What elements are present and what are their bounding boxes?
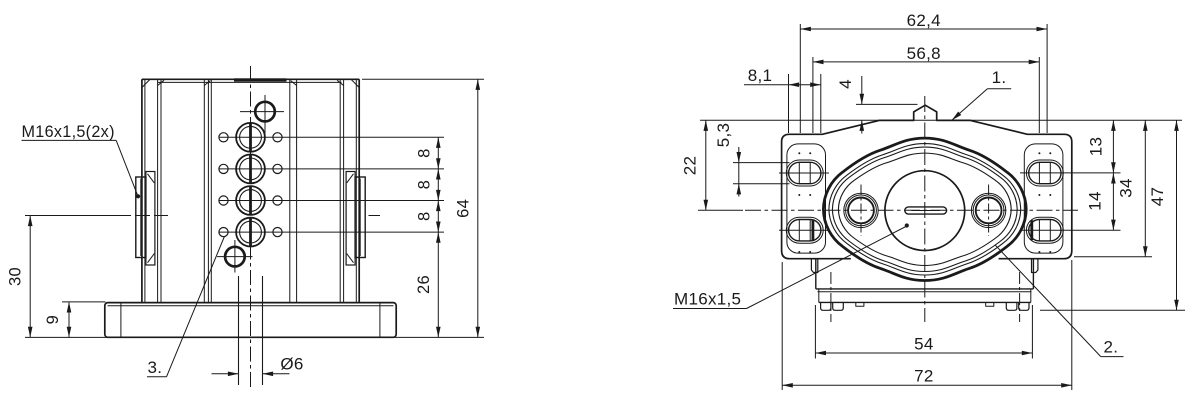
right view: right ear inner contour: [1024, 144, 1063, 253]
left view: base corner edges: [120, 303, 122, 338]
left view: dimension 9: [44, 302, 106, 338]
right view: left ear holes centerline upper: [779, 172, 829, 174]
left view: right boss centerline tick: [369, 215, 381, 217]
left view: body vertical edges: [142, 79, 359, 302]
right view: left ear holes centerline lower: [779, 229, 829, 231]
svg-text:64: 64: [454, 199, 472, 218]
left view: bottom offset hole with centerlines: [217, 240, 253, 273]
left view: chain dimension 8/8/8/26: [415, 137, 441, 337]
left view: horizontal centerline (boss axis): [25, 215, 168, 217]
svg-text:5,3: 5,3: [714, 123, 733, 148]
svg-text:26: 26: [415, 275, 433, 294]
svg-text:13: 13: [1087, 137, 1106, 157]
svg-text:47: 47: [1148, 187, 1167, 207]
right view: dimension 8,1: [744, 66, 821, 133]
left view: top corner chamfer edges: [142, 79, 359, 87]
svg-text:72: 72: [914, 367, 934, 386]
left view: body top face thick edge: [234, 78, 287, 81]
right view: base block edges: [816, 259, 1034, 303]
right view: dimension 22: [680, 120, 743, 210]
right view: dimension 62,4: [800, 11, 1047, 133]
right view: left ear inner contour: [787, 144, 826, 253]
right view: top plane extension line: [700, 119, 1182, 121]
left view: dimension 64: [454, 79, 480, 337]
right view: right ear upper slot hole 8,1x5,3: [1026, 160, 1063, 186]
left view: right side boss (M16 port): [346, 172, 365, 266]
svg-text:M16x1,5(2x): M16x1,5(2x): [22, 123, 115, 141]
left view: vertical centerline: [250, 66, 252, 388]
right view: dimension 72: [782, 260, 1072, 390]
right view: vertical centerline: [924, 96, 926, 322]
right view: horizontal centerline: [745, 209, 1078, 211]
left view: dimension 30: [7, 216, 33, 338]
left view: ground/baseline extension line: [25, 336, 484, 338]
svg-text:8: 8: [416, 148, 434, 157]
right view: label 1. with leader arrow: [950, 68, 1011, 122]
left view: base top face edge: [108, 305, 394, 307]
right view: dimension 4 (tab height): [836, 76, 918, 134]
right view: base feet left: [821, 302, 864, 310]
right view: dimensions 13 and 14: [1020, 120, 1121, 230]
right view: left ear lower slot hole with thread mark: [786, 217, 823, 243]
svg-text:1.: 1.: [992, 68, 1007, 87]
svg-text:2.: 2.: [1104, 338, 1119, 357]
left view: dimension O6: [212, 355, 304, 377]
svg-text:56,8: 56,8: [907, 44, 941, 63]
svg-text:8,1: 8,1: [748, 66, 773, 85]
svg-text:14: 14: [1086, 191, 1105, 211]
left view: hole row 4 (threaded port + side holes + extension line): [219, 218, 444, 247]
right view: label M16x1,5 with leader: [673, 223, 909, 308]
right view: dimension 34: [1074, 120, 1152, 256]
svg-text:22: 22: [680, 156, 699, 176]
left view: housing body outline top edge: [142, 78, 359, 80]
left view: top offset hole with centerlines: [240, 95, 284, 134]
left view: label 3. with leader: [147, 237, 224, 377]
svg-text:4: 4: [836, 79, 855, 89]
svg-text:34: 34: [1117, 178, 1136, 198]
left view: top extension line for 64: [362, 78, 484, 80]
right view: center slot key: [905, 207, 947, 214]
right view: seal contour outer (bold): [823, 138, 1026, 280]
svg-text:8: 8: [416, 180, 434, 189]
svg-text:8: 8: [416, 212, 434, 221]
left view: hole row 3 (threaded port + side holes + extension line): [219, 186, 444, 215]
left view: bottom slot hole edges (O6): [238, 276, 240, 385]
right view: right port hole: [971, 185, 1005, 237]
right view: right foot centerline: [1019, 272, 1021, 322]
svg-text:30: 30: [7, 267, 25, 286]
right view: right ear lower slot hole with thread mark: [1026, 217, 1063, 243]
right view: left foot centerline: [830, 272, 832, 322]
svg-text:Ø6: Ø6: [280, 355, 303, 374]
left view: left side boss (M16 port): [136, 172, 155, 266]
right view: seal contour 2: [829, 144, 1021, 275]
svg-text:M16x1,5: M16x1,5: [674, 290, 741, 309]
left view: hole row 2 (threaded port + side holes + extension line): [219, 154, 444, 183]
right view: seal contour 3: [832, 147, 1017, 271]
right view: base feet right: [986, 302, 1029, 310]
left view: label M16x1,5(2x) with leader: [22, 123, 141, 199]
right view: right ear bottom tab: [1032, 259, 1038, 273]
svg-text:54: 54: [914, 335, 934, 354]
right view: dimension 54: [815, 305, 1032, 359]
right view: left port hole: [844, 185, 878, 237]
right view: flange plate outline with top tab: [782, 105, 1072, 259]
right view: left ear bottom tab: [811, 259, 817, 273]
left view: base flange outline: [105, 303, 396, 338]
right view: dimension 56,8: [813, 44, 1039, 133]
svg-text:9: 9: [44, 315, 62, 324]
right view: dimension 47: [1040, 120, 1185, 310]
right view: ear slot centerline dots: [798, 152, 1051, 253]
right view: center bore circle: [885, 171, 965, 251]
left view: hole row 1 (threaded port + side holes + extension line): [219, 123, 444, 152]
svg-text:62,4: 62,4: [907, 11, 941, 30]
left view: body top inner edge line: [158, 81, 342, 83]
right view: left ear upper slot hole 8,1x5,3: [786, 160, 823, 186]
svg-text:3.: 3.: [148, 358, 163, 377]
right view: dimension 5,3: [714, 123, 790, 197]
right view: seal contour inner chamber: [838, 153, 1011, 265]
right view: label 2. with leader: [995, 245, 1124, 357]
